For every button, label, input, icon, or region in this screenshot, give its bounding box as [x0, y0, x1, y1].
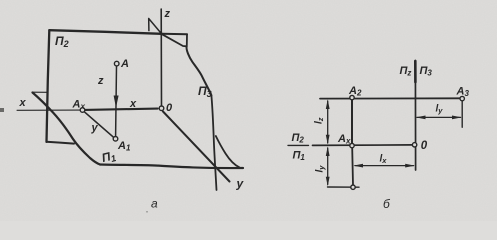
plane П2 left edge: [47, 30, 50, 142]
point A: [114, 61, 119, 66]
plane П3 top edge: [162, 33, 187, 36]
bottom extension line at A1: [328, 186, 360, 188]
dimension arrowheads: [326, 99, 462, 186]
plane П3 fold diagonal: [162, 34, 187, 46]
Lx arrows: [353, 164, 363, 168]
plane П1 far edge: [32, 91, 47, 93]
plane П3 right edge vertical: [211, 96, 216, 191]
Ly right arrows: [416, 116, 426, 120]
point A2: [350, 95, 354, 99]
fraction bar П2/П1: [288, 144, 309, 146]
dim line Ly right: [417, 116, 461, 118]
point Ax right: [350, 143, 354, 147]
plane П2 bottom edge: [47, 142, 75, 144]
plane П2 top edge: [50, 30, 162, 34]
stray dot: [146, 211, 148, 213]
plane П1 right torn edge: [216, 136, 240, 167]
axis line П2/П1: [313, 144, 413, 147]
Ax-A1 segment (y coordinate): [84, 112, 113, 138]
point A1 right: [351, 185, 355, 189]
vertical axis Пz|П3: [414, 61, 416, 171]
top horizontal line A2-A3: [320, 97, 462, 99]
x axis thin part: [17, 109, 80, 111]
plane П1 bottom edge: [100, 165, 243, 169]
Lz arrows: [326, 99, 330, 109]
dim line Lx: [355, 165, 414, 167]
plane П3 top-right cut: [186, 34, 188, 45]
vertical A2-Ax: [351, 100, 353, 144]
A drop line to A1: [115, 66, 118, 136]
vertical axis label separator thick part: [414, 61, 417, 82]
point Ax: [80, 108, 85, 113]
dim line Ly left: [327, 148, 329, 185]
point A3: [460, 96, 464, 100]
arrowhead on A drop line: [114, 96, 119, 108]
labels right figure: [292, 65, 470, 211]
plane П3 torn right edge: [187, 46, 212, 95]
Ly left arrows: [326, 146, 330, 156]
y axis: [163, 112, 230, 182]
x axis thick part Ax-O: [85, 109, 158, 110]
dim line Lz: [327, 101, 329, 143]
left edge smudge: [0, 108, 4, 112]
point A1: [113, 137, 118, 142]
vertical Ax-A1: [351, 148, 354, 185]
point O: [159, 106, 164, 111]
corner flag at z axis: [149, 19, 162, 34]
z axis: [160, 9, 162, 108]
extension below A3: [461, 101, 463, 127]
point O right: [412, 143, 416, 147]
plane П1 left edge: [33, 93, 101, 165]
labels left figure: [19, 8, 245, 211]
